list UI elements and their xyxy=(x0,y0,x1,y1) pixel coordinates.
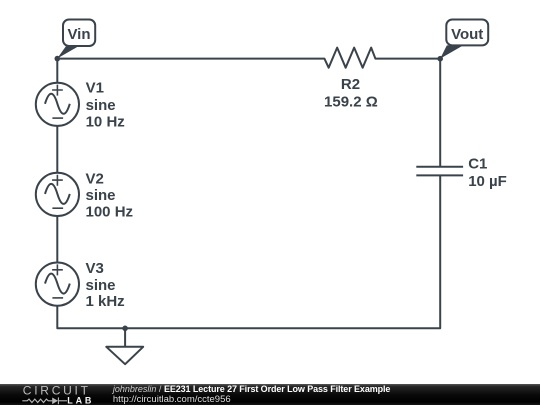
svg-text:1 kHz: 1 kHz xyxy=(86,293,125,310)
svg-text:http://circuitlab.com/ccte956: http://circuitlab.com/ccte956 xyxy=(113,394,231,405)
svg-text:LAB: LAB xyxy=(67,395,94,405)
svg-text:159.2 Ω: 159.2 Ω xyxy=(324,94,378,111)
svg-text:10 µF: 10 µF xyxy=(468,173,507,190)
svg-text:V2: V2 xyxy=(86,170,104,187)
svg-text:sine: sine xyxy=(86,187,116,204)
svg-text:R2: R2 xyxy=(341,76,360,93)
svg-text:V3: V3 xyxy=(86,260,104,277)
svg-text:100 Hz: 100 Hz xyxy=(86,203,134,220)
svg-text:V1: V1 xyxy=(86,80,104,97)
svg-text:sine: sine xyxy=(86,277,116,294)
svg-text:10 Hz: 10 Hz xyxy=(86,113,125,130)
svg-text:Vout: Vout xyxy=(451,26,483,43)
svg-text:johnbreslin / EE231 Lecture 27: johnbreslin / EE231 Lecture 27 First Ord… xyxy=(112,384,391,394)
svg-text:sine: sine xyxy=(86,97,116,114)
svg-text:C1: C1 xyxy=(468,155,487,172)
svg-text:Vin: Vin xyxy=(67,26,90,43)
